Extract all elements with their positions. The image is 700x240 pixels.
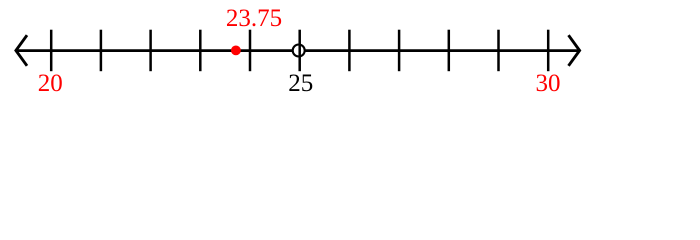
- svg-text:30: 30: [536, 70, 561, 97]
- tick 22: [149, 30, 152, 71]
- svg-text:25: 25: [288, 70, 313, 97]
- tick 24: [249, 30, 252, 71]
- tick 23: [199, 30, 202, 71]
- tick 30: [547, 30, 550, 71]
- tick 27: [398, 30, 401, 71]
- open circle at 25: [293, 45, 305, 57]
- filled point at 23.75: [231, 46, 241, 56]
- tick 25: [298, 30, 301, 71]
- tick 29: [497, 30, 500, 71]
- left arrowhead: [16, 35, 27, 66]
- number line axis: [16, 49, 580, 52]
- svg-text:20: 20: [38, 70, 63, 97]
- tick 21: [100, 30, 103, 71]
- tick 28: [448, 30, 451, 71]
- tick 20: [50, 30, 53, 71]
- right arrowhead: [569, 35, 580, 66]
- svg-text:23.75: 23.75: [226, 5, 282, 32]
- tick 26: [348, 30, 351, 71]
